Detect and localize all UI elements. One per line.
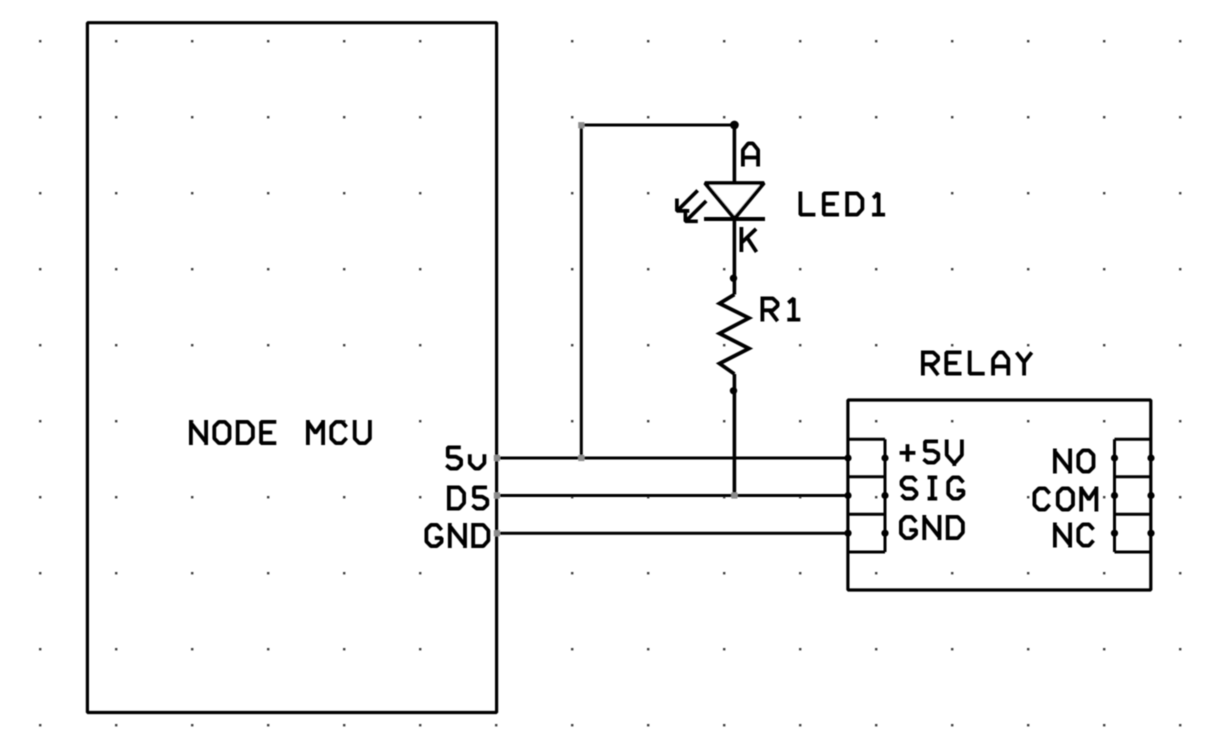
LED cathode label K [741,227,756,252]
relay left pin boxes (+5V, SIG, GND pins) [848,439,885,552]
junction: R1 bottom [730,387,737,394]
wire: MCU D5 to relay SIG [497,494,848,497]
relay pin label +5V [900,440,962,467]
label R1 [762,297,800,322]
MCU U: NODE MCU box [87,23,496,713]
wire corner node at 5v rail top [578,122,584,128]
wire: resistor bottom lead down to D5 line [733,374,737,496]
node: MCU pin GND [494,530,500,536]
label LED1 [800,192,885,217]
label: NODE MCU [191,420,370,445]
LED LED1: triangle [705,183,764,219]
node: MCU pin D5 [494,492,500,498]
node: MCU pin 5v [494,455,500,461]
wire: LED cathode lead down to resistor [733,219,737,295]
wire: MCU 5v to relay +5V [497,457,848,460]
LED anode label A [743,143,758,166]
relay pin label NO [1055,449,1094,474]
LED LED1: emission arrow 1 [677,190,698,211]
label RELAY [923,351,1032,376]
node: resistor chain joins D5 wire [731,492,737,498]
relay module body [848,400,1151,590]
pin label D5 [449,486,487,511]
LED LED1: emission arrow 2 [685,201,706,221]
relay pin label SIG [902,476,964,501]
junction: top wire / LED anode [730,121,739,130]
relay pin dots left [844,454,851,461]
junction: LED cathode / R1 top [730,275,737,282]
relay pin label COM [1034,487,1096,512]
wire: LED anode lead [733,125,737,183]
wire: 5v top horizontal [581,124,734,127]
relay pin dots right [1111,454,1118,461]
relay pin label NC [1055,523,1094,548]
node: vertical drop joins 5v wire [578,455,584,461]
wire: 5v vertical drop [580,124,583,459]
wire: MCU GND to relay GND [497,532,848,535]
LED LED1: cathode bar [704,217,765,221]
resistor R1 zigzag [720,295,750,375]
pin label 5v [446,447,484,468]
relay right pin boxes (NO, COM, NC pins) [1115,439,1152,552]
pin label GND (MCU) [426,523,488,548]
relay pin label GND [901,515,963,540]
